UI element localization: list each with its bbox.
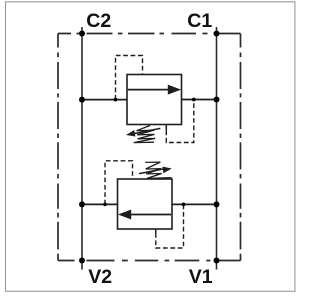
node V2 bottom junction bbox=[79, 258, 85, 264]
node CB2 drain tap bbox=[182, 203, 186, 207]
valve CB2 drain line bbox=[155, 229, 157, 233]
svg-text:V1: V1 bbox=[189, 266, 213, 288]
valve CB1 pilot line (dashed) bbox=[116, 56, 143, 100]
wire: C2 line to CB2 bbox=[82, 203, 118, 205]
node CB1 outlet on right line bbox=[214, 97, 220, 103]
node V1 bottom junction bbox=[214, 258, 220, 264]
svg-text:C2: C2 bbox=[86, 10, 111, 32]
wire: left vertical line C2-V2 bbox=[81, 27, 83, 270]
node CB2 on left line bbox=[79, 201, 85, 207]
valve CB1 body square bbox=[127, 75, 182, 125]
node CB1 drain tap bbox=[192, 98, 196, 102]
node C2 top junction bbox=[79, 31, 85, 37]
valve CB1 drain line bbox=[165, 125, 167, 131]
valve CB1 spring adjustment arrow bbox=[134, 128, 160, 133]
valve CB2 flow arrow bbox=[130, 214, 171, 216]
valve CB2 body square bbox=[118, 179, 173, 229]
node C1 top junction bbox=[214, 31, 220, 37]
valve CB1 flow arrow bbox=[128, 89, 169, 91]
node CB2 on right line bbox=[214, 201, 220, 207]
wire: CB2 to C1 line bbox=[172, 203, 217, 205]
enclosure top edge (dash-dot manifold boundary) bbox=[58, 33, 241, 35]
valve CB2 spring adjustment arrow bbox=[139, 169, 164, 174]
node CB1 pilot tap bbox=[114, 98, 118, 102]
valve CB2 spring bbox=[145, 162, 171, 178]
valve CB1 (top counterbalance/relief element) bbox=[116, 56, 194, 143]
wire: C2 line to CB1 inlet bbox=[82, 99, 127, 101]
enclosure left edge (dash-dot manifold boundary) bbox=[57, 34, 59, 261]
svg-text:C1: C1 bbox=[187, 10, 212, 32]
svg-text:V2: V2 bbox=[88, 266, 112, 288]
valve CB2 pilot line (dashed) bbox=[105, 161, 133, 205]
valve CB1 spring bbox=[134, 126, 156, 143]
wire: right vertical line C1-V1 bbox=[216, 27, 218, 270]
node CB2 pilot tap bbox=[103, 203, 107, 207]
enclosure bottom edge (dash-dot manifold boundary) bbox=[58, 260, 241, 262]
wire: CB1 outlet to C1 line bbox=[182, 99, 217, 101]
valve CB2 (bottom counterbalance/relief element) bbox=[105, 161, 184, 248]
enclosure right edge (dash-dot manifold boundary) bbox=[240, 34, 242, 261]
node CB1 inlet on left line bbox=[79, 97, 85, 103]
